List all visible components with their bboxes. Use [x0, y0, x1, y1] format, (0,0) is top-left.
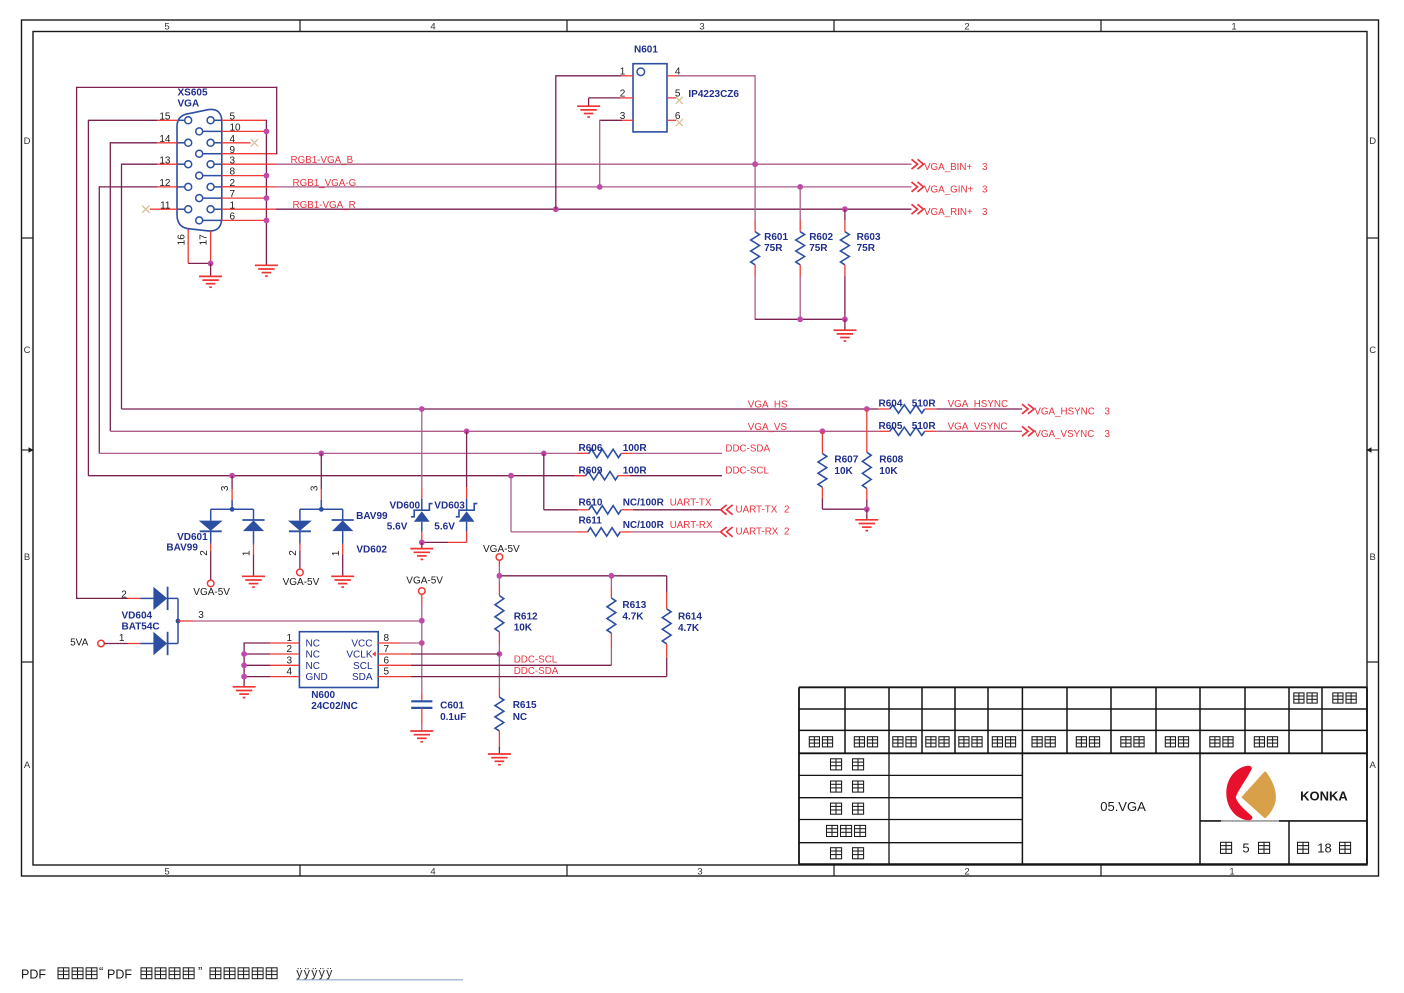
wire R615 top [498, 654, 500, 688]
junction DDC-SCL UART-RX drop [508, 473, 514, 479]
border centre arrow left [22, 449, 29, 451]
zener triangle [414, 511, 430, 522]
wire pin7 stub [222, 197, 267, 199]
svg-text:BAT54C: BAT54C [122, 621, 160, 632]
port VGA_BIN+ chevron [912, 159, 918, 169]
resistor R613 [607, 598, 616, 633]
svg-text:05.VGA: 05.VGA [1100, 799, 1146, 814]
wire net VGA_VS [110, 430, 878, 432]
svg-text:NC: NC [513, 712, 527, 723]
svg-text:RGB1-VGA_B: RGB1-VGA_B [291, 155, 354, 166]
wire VD602 pin2 to supply [299, 551, 301, 569]
svg-text:5: 5 [1242, 840, 1249, 855]
no-connect X pin4 [251, 139, 258, 146]
svg-text:R603: R603 [857, 232, 881, 243]
wire ground bus vertical XS605 [265, 120, 267, 265]
svg-text:”: ” [198, 964, 202, 979]
connector XS605 pin circles left column [185, 117, 192, 124]
wire pin15 vertical to DDC-SCL row [87, 120, 89, 476]
wire pin16 stub [187, 230, 189, 264]
svg-text:75R: 75R [809, 243, 828, 254]
diode VD604 lower [153, 632, 167, 655]
N601 pin2 stub [620, 97, 633, 99]
wire VD602 pin1 down [342, 544, 344, 555]
wire top horizontal VGA pin9 net [76, 86, 277, 88]
svg-text:A: A [1370, 760, 1377, 771]
wire R613 top [610, 576, 612, 587]
resistor R607 [818, 454, 827, 488]
svg-text:DDC-SCL: DDC-SCL [514, 655, 558, 666]
svg-text:VGA_HS: VGA_HS [748, 400, 788, 411]
ground XS605 shield bus [255, 264, 278, 266]
wire N601 pin1 horizontal [556, 75, 621, 77]
svg-text:1: 1 [1229, 866, 1234, 877]
svg-text:VGA_HSYNC: VGA_HSYNC [948, 399, 1008, 410]
wire UART-TX drop vertical [543, 453, 545, 509]
ground C601 [410, 730, 433, 732]
svg-text:C: C [1369, 345, 1376, 356]
no-connect X N601 pin5 [676, 97, 683, 104]
title block grid [799, 686, 1367, 688]
svg-text:R612: R612 [514, 612, 538, 623]
power 5VA circle [98, 640, 105, 647]
svg-text:VGA_GIN+: VGA_GIN+ [924, 185, 974, 196]
svg-text:XS605: XS605 [178, 88, 208, 99]
wire zener top vertical [466, 431, 468, 487]
svg-text:R613: R613 [622, 600, 646, 611]
title header row right: 标记 数量 分区 单号 签名 日期 [1032, 737, 1042, 747]
wire net RGB1_VGA-G [276, 186, 912, 188]
svg-text:R614: R614 [678, 612, 702, 623]
wire net UART-RX out [632, 531, 721, 533]
wire UART-TX row left [544, 509, 578, 511]
port UART-RX chevron [721, 527, 727, 537]
wire R612 top [498, 576, 500, 584]
junction N600 pin8 VCC [419, 640, 425, 646]
svg-text:VCC: VCC [351, 639, 372, 650]
svg-text:5: 5 [164, 22, 169, 33]
svg-text:3: 3 [697, 866, 702, 877]
junction R608 ground [864, 506, 870, 512]
connector XS605 pin circles middle column [196, 128, 203, 135]
resistor R614 [662, 609, 671, 644]
wire N601 pin2 to ground [589, 97, 620, 99]
svg-text:PDF: PDF [21, 967, 46, 981]
zener cathode bar [456, 504, 478, 517]
junction DDC-SDA VD602 [318, 451, 324, 457]
wire VCC vertical to C601 [421, 643, 423, 694]
connector XS605 pin circles right column [207, 117, 214, 124]
wire R604 right red [925, 408, 937, 410]
title text 标准化 [827, 825, 838, 836]
svg-text:10K: 10K [834, 466, 853, 477]
wire N601 pin4 horizontal [678, 75, 755, 77]
svg-text:RGB1-VGA_R: RGB1-VGA_R [293, 200, 356, 211]
svg-text:R609: R609 [579, 465, 603, 476]
wire VD601 pin3 vertical [231, 476, 233, 489]
svg-text:VCLK: VCLK [346, 650, 372, 661]
junction pin17 ground [208, 261, 214, 267]
wire pin6 stub [222, 219, 267, 221]
wire R612 bottom [498, 632, 500, 644]
svg-text:24C02/NC: 24C02/NC [311, 701, 358, 712]
svg-text:75R: 75R [764, 243, 783, 254]
svg-text:100R: 100R [623, 465, 648, 476]
N601 pin6 stub [667, 119, 676, 121]
title text 第 5 张 [1221, 842, 1232, 853]
junction VGA_VS VD603 [464, 428, 470, 434]
power VGA-5V circle rail [496, 554, 503, 561]
svg-text:IP4223CZ6: IP4223CZ6 [688, 89, 739, 100]
wire R613 bottom [610, 633, 612, 648]
svg-text:R615: R615 [513, 700, 537, 711]
wire net DDC-SDA row [99, 452, 589, 454]
junction rail R612 [497, 573, 503, 579]
junction VD604 pin3 VCC [419, 618, 425, 624]
power VGA-5V at VD602 pin2 [297, 569, 304, 576]
N600 VCLK input mark [372, 651, 376, 656]
title text 共 18 张 [1298, 842, 1309, 853]
svg-text:VD603: VD603 [434, 501, 465, 512]
resistor R609 [586, 472, 619, 480]
diode VD601 left (pin2, anode down) [199, 521, 223, 531]
wire pin8 stub [222, 175, 267, 177]
svg-text:VGA-5V: VGA-5V [283, 577, 320, 588]
title text 工艺 [831, 803, 842, 814]
svg-text:R605: R605 [879, 421, 903, 432]
title text 拟制 [831, 759, 842, 770]
junction RGB red N601 pin1 [553, 206, 559, 212]
wire pin5 stub [222, 119, 267, 121]
svg-text:NC: NC [306, 650, 320, 661]
wire VD601 pin2 down [210, 544, 212, 552]
chip N601 body [633, 64, 667, 132]
svg-text:SDA: SDA [352, 672, 373, 683]
svg-text:4: 4 [430, 22, 435, 33]
svg-text:ÿÿÿÿÿ: ÿÿÿÿÿ [296, 966, 333, 980]
wire R605 left red [878, 430, 890, 432]
svg-text:3: 3 [198, 610, 204, 621]
svg-text:1: 1 [331, 550, 342, 556]
svg-text:2: 2 [199, 550, 210, 556]
resistor R604 [890, 405, 925, 413]
svg-text:510R: 510R [912, 421, 937, 432]
wire pin9 stub [222, 153, 277, 155]
svg-text:R607: R607 [834, 455, 858, 466]
svg-text:KONKA: KONKA [1300, 788, 1348, 803]
svg-text:SCL: SCL [353, 661, 373, 672]
wire net DDC-SDA out [633, 452, 722, 454]
wire N601 pin4 vertical to RGB blue [754, 75, 756, 164]
svg-text:1: 1 [242, 550, 253, 556]
wire N600 pin6 SCL [378, 664, 411, 666]
svg-text:3: 3 [699, 22, 704, 33]
svg-text:2: 2 [620, 89, 626, 100]
resistor R612 [495, 596, 504, 632]
wire rail to ground sync [866, 509, 868, 520]
svg-text:C601: C601 [440, 700, 464, 711]
wire net DDC-SCL row [88, 475, 585, 477]
wire N601 pin3 horizontal [600, 119, 622, 121]
wire pin2 stub RGB green [222, 186, 277, 188]
svg-text:5: 5 [675, 89, 681, 100]
svg-text:R602: R602 [809, 232, 833, 243]
wire R605 right red [925, 430, 937, 432]
junction DDC-SCL VD601 [229, 473, 235, 479]
svg-text:R604: R604 [879, 399, 903, 410]
svg-text:NC/100R: NC/100R [623, 497, 665, 508]
ground VD600 VD603 [410, 548, 433, 550]
junction R612 VCLK [497, 651, 503, 657]
N601 pin5 stub [667, 97, 676, 99]
wire terminator ground rail [755, 318, 845, 320]
wire R615 bottom [498, 731, 500, 747]
wire R608 top red [866, 409, 868, 452]
wire R607 top red [821, 431, 823, 453]
wire pin13 vertical to VGA_HS row [121, 164, 123, 409]
wire pin14 stub [110, 142, 157, 144]
junction VGA_VS R607 [820, 428, 826, 434]
svg-text:“: “ [99, 964, 103, 979]
resistor R615 [495, 697, 504, 731]
svg-text:VD604: VD604 [122, 610, 153, 621]
svg-text:C: C [24, 345, 31, 356]
wire zener ground link [422, 541, 448, 543]
svg-text:DDC-SDA: DDC-SDA [514, 666, 559, 677]
svg-text:2: 2 [784, 505, 789, 516]
wire R607 R608 ground rail [822, 508, 866, 510]
wire to ground XS605 bottom [210, 263, 212, 276]
wire N600 pin5 SDA [378, 676, 411, 678]
junction N600 pin3 bus [241, 662, 247, 668]
wire N600 pin1 stub [244, 642, 270, 644]
svg-text:5: 5 [164, 866, 169, 877]
diode VD602 left (pin2, anode down) [288, 521, 312, 531]
junction RGB red R603 [842, 206, 848, 212]
wire N600 pin2 stub [244, 653, 270, 655]
junction R603 rail [842, 316, 848, 322]
wire R607 bottom [821, 487, 823, 498]
title text 等级 [1294, 693, 1304, 703]
wire far-left vertical to VD604 pin2 [76, 87, 78, 599]
svg-text:3: 3 [309, 485, 320, 491]
title header row left: 标记 数量 分区 单号 签名 日期 [809, 737, 819, 747]
wire N600 pin3 stub [244, 664, 270, 666]
svg-text:PDF: PDF [107, 967, 132, 981]
wire N600 ground bus [243, 642, 245, 686]
svg-text:2: 2 [964, 22, 969, 33]
svg-text:RGB1_VGA-G: RGB1_VGA-G [293, 178, 357, 189]
junction RGB green R602 [797, 184, 803, 190]
svg-text:16: 16 [176, 234, 187, 246]
resistor R602 [796, 232, 805, 265]
border row ticks [22, 237, 34, 239]
wire R601 top [754, 164, 756, 220]
svg-text:2: 2 [964, 866, 969, 877]
ground XS605 pins 16 17 [199, 275, 222, 277]
wire VD602 pin2 down [299, 544, 301, 552]
wire N600 pin8 stub [378, 642, 400, 644]
chip N601 pin1 indicator circle [637, 68, 645, 76]
wire net VGA_HS [122, 408, 879, 410]
wire pin4 stub [222, 142, 251, 144]
svg-text:1: 1 [1231, 22, 1236, 33]
wire UART-RX row left [511, 531, 576, 533]
wire R608 bottom [866, 489, 868, 500]
power VGA-5V at VD601 pin2 [207, 580, 214, 587]
wire net VGA_HSYNC out [936, 408, 1022, 410]
svg-text:4: 4 [430, 866, 435, 877]
wire VD604 pin3 [178, 620, 193, 622]
svg-text:10K: 10K [879, 466, 898, 477]
diode pair VD601 common rail [211, 508, 254, 510]
svg-text:VGA-5V: VGA-5V [406, 575, 443, 586]
junction RGB green N601 pin3 [597, 184, 603, 190]
N601 pin3 stub [622, 119, 633, 121]
svg-text:VGA-5V: VGA-5V [483, 544, 520, 555]
svg-text:75R: 75R [857, 243, 876, 254]
wire R609 left red [574, 475, 585, 477]
wire VD604 pin1 horizontal [105, 643, 129, 645]
wire N600 pin7 VCLK [378, 653, 411, 655]
wire R601 bottom [754, 265, 756, 277]
svg-text:VGA_RIN+: VGA_RIN+ [924, 207, 973, 218]
wire net UART-TX out [633, 509, 721, 511]
svg-text:5VA: 5VA [70, 637, 88, 648]
diode VD601 right (pin1, cathode up) [242, 519, 264, 521]
wire R609 right red [618, 475, 630, 477]
wire R603 bottom [844, 265, 846, 277]
wire R603 top [844, 209, 846, 220]
wire pin11 stub [150, 208, 177, 210]
wire VCC vertical mid [421, 621, 423, 643]
wire N601 pin3 vertical to RGB green [599, 120, 601, 187]
ground N600 [233, 686, 256, 688]
border column ticks [299, 20, 301, 32]
resistor R610 [589, 506, 621, 514]
diode VD602 right (pin1, cathode up) [332, 519, 354, 521]
wire net RGB1-VGA_B [276, 163, 912, 165]
zener cathode bar [411, 504, 433, 517]
junction VGA_HS R608 [864, 406, 870, 412]
resistor R601 [751, 232, 760, 265]
wire pin16 to pin17 [188, 262, 210, 264]
border centre arrow right [1372, 449, 1379, 451]
wire pin15 stub [88, 119, 157, 121]
svg-text:VGA: VGA [178, 99, 200, 110]
wire R602 bottom [799, 265, 801, 277]
connector XS605 body [177, 109, 222, 230]
svg-text:1: 1 [119, 633, 125, 644]
wire net DDC-SCL out [630, 475, 722, 477]
wire N601 pin1 vertical to RGB red [555, 75, 557, 209]
watermark underline [296, 979, 463, 981]
svg-text:B: B [24, 552, 30, 563]
title text 批准 [831, 848, 842, 859]
wire zener bottom [466, 522, 468, 532]
ground R607 R608 [855, 519, 878, 521]
svg-text:100R: 100R [623, 443, 648, 454]
junction N600 pin4 bus [241, 674, 247, 680]
svg-text:3: 3 [982, 185, 988, 196]
svg-text:N600: N600 [311, 690, 335, 701]
svg-text:NC: NC [306, 661, 320, 672]
wire VD601 pin2 to supply [210, 551, 212, 580]
port VGA_VSYNC chevron [1022, 426, 1028, 436]
border inner frame [33, 32, 1367, 866]
N601 pin4 stub [667, 75, 678, 77]
svg-text:UART-RX: UART-RX [736, 527, 779, 538]
diode VD604 upper [153, 587, 167, 610]
wire pin12 vertical to DDC-SDA row [98, 186, 100, 453]
svg-text:2: 2 [121, 589, 127, 600]
wire pin13 stub [122, 163, 158, 165]
svg-text:3: 3 [982, 162, 988, 173]
svg-text:VD600: VD600 [390, 501, 421, 512]
svg-text:3: 3 [1105, 429, 1111, 440]
svg-text:R610: R610 [579, 497, 603, 508]
svg-text:4.7K: 4.7K [678, 623, 700, 634]
svg-text:DDC-SCL: DDC-SCL [725, 466, 769, 477]
svg-text:A: A [24, 760, 31, 771]
junction pin7 bus [264, 195, 270, 201]
wire pin12 stub [99, 186, 157, 188]
svg-text:BAV99: BAV99 [166, 542, 198, 553]
junction VGA_HS VD600 [419, 406, 425, 412]
wire R614 bottom [666, 644, 668, 658]
svg-text:R611: R611 [579, 515, 603, 526]
junction R602 rail [797, 316, 803, 322]
wire R606 left red [578, 452, 589, 454]
wire R604 left red [878, 408, 890, 410]
ground RGB terminators [833, 329, 856, 331]
svg-text:3: 3 [220, 485, 231, 491]
wire zener top vertical [421, 409, 423, 487]
svg-text:VGA_VSYNC: VGA_VSYNC [948, 422, 1008, 433]
svg-text:VGA-5V: VGA-5V [193, 587, 230, 598]
N601 pin1 stub [621, 75, 633, 77]
svg-text:6: 6 [675, 111, 681, 122]
wire VD604 common cathode [168, 597, 178, 599]
junction rail R613 [609, 573, 615, 579]
chip N600 body [299, 632, 378, 688]
no-connect X pin11 [142, 206, 149, 213]
svg-text:R608: R608 [879, 455, 903, 466]
svg-text:VD602: VD602 [356, 544, 387, 555]
wire VD601 pin1 down [253, 544, 255, 555]
junction zener ground [419, 540, 425, 546]
svg-text:DDC-SDA: DDC-SDA [725, 443, 770, 454]
ground R615 [488, 753, 511, 755]
svg-text:10K: 10K [514, 623, 533, 634]
wire R602 top [799, 187, 801, 220]
title text 标记 top right [1333, 693, 1343, 703]
svg-text:UART-TX: UART-TX [736, 505, 778, 516]
svg-text:3: 3 [982, 207, 988, 218]
ground N601 pin2 [577, 105, 600, 107]
junction pin10 bus [264, 129, 270, 135]
wire VGA-5V circle drop [498, 560, 500, 566]
wire zener ground drop [421, 542, 423, 548]
svg-text:BAV99: BAV99 [356, 511, 388, 522]
wire R611 right red [620, 531, 632, 533]
port VGA_HSYNC chevron [1022, 404, 1028, 414]
diode pair VD602 common rail [300, 508, 343, 510]
svg-text:D: D [1369, 136, 1376, 147]
wire VD602 pin3 vertical [320, 453, 322, 489]
svg-text:B: B [1370, 552, 1376, 563]
wire net VGA-5V rail [499, 575, 666, 577]
